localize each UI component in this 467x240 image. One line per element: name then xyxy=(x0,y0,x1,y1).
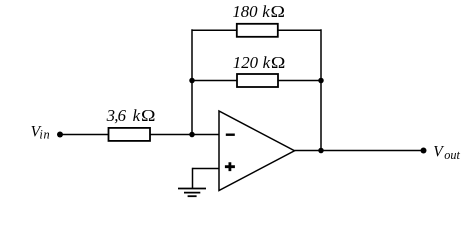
svg-text:3,6: 3,6 xyxy=(106,106,127,125)
wire: Vin to input resistor xyxy=(60,134,109,136)
label: 180 kΩ value xyxy=(232,2,285,21)
svg-text:out: out xyxy=(444,148,460,162)
svg-text:120: 120 xyxy=(233,53,259,72)
junction: feedback bus to inverting input xyxy=(189,132,195,138)
svg-text:V: V xyxy=(433,144,444,161)
svg-text:180: 180 xyxy=(232,2,258,21)
svg-text:k: k xyxy=(133,106,141,125)
junction: output to feedback bus xyxy=(318,148,324,154)
wire: 120k branch left segment xyxy=(192,80,237,82)
wire: non-inverting input down to ground xyxy=(192,168,194,189)
ground symbol xyxy=(178,189,206,197)
svg-text:k: k xyxy=(262,2,270,21)
wire: input resistor to inverting input xyxy=(150,134,219,136)
pin label: non-inverting input plus xyxy=(225,162,235,171)
wire: 180k loop top-right horizontal segment xyxy=(278,29,321,31)
svg-text:Ω: Ω xyxy=(271,2,285,20)
label: 120 kΩ value xyxy=(233,53,286,72)
wire: right vertical feedback bus xyxy=(320,29,322,150)
label: Vout xyxy=(433,144,460,163)
svg-text:in: in xyxy=(39,127,50,141)
wire: 180k loop top-left horizontal segment xyxy=(192,29,237,31)
junction: feedback bus to 120k left xyxy=(189,78,195,84)
node: Vin input terminal dot xyxy=(57,132,63,138)
wire: 120k branch right segment xyxy=(278,80,321,82)
resistor R2 120 kOhm xyxy=(237,74,278,87)
svg-text:Ω: Ω xyxy=(271,53,285,71)
wire: non-inverting input horizontal segment xyxy=(193,168,220,170)
resistor R3 3,6 kOhm xyxy=(109,128,151,141)
op-amp U1 triangle xyxy=(219,111,295,191)
resistor R1 180 kOhm xyxy=(237,24,278,37)
junction: 120k right to feedback bus xyxy=(318,78,324,84)
wire: op-amp output to Vout xyxy=(295,150,424,152)
label: Vin xyxy=(31,123,51,141)
svg-text:Ω: Ω xyxy=(141,106,155,124)
label: 3,6 kΩ value xyxy=(106,106,156,125)
svg-text:k: k xyxy=(263,53,271,72)
node: Vout output terminal dot xyxy=(421,148,427,154)
wire: left vertical feedback bus xyxy=(191,29,193,134)
pin label: inverting input minus xyxy=(226,134,235,136)
